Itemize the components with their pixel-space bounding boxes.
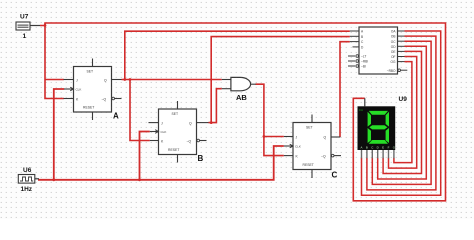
junction on clock bus at A.CLK riser bbox=[52, 178, 55, 181]
junction on clock bus at B.CLK riser bbox=[138, 178, 141, 181]
seven segment display U9 bbox=[358, 96, 408, 158]
svg-text:~RBO: ~RBO bbox=[387, 69, 396, 73]
svg-text:C: C bbox=[332, 171, 338, 180]
svg-text:RESET: RESET bbox=[168, 148, 179, 152]
svg-text:CLK: CLK bbox=[295, 145, 301, 149]
wire C.Q net: to decoder C bbox=[340, 42, 350, 137]
svg-text:1Hz: 1Hz bbox=[21, 186, 33, 193]
svg-text:SET: SET bbox=[87, 70, 94, 74]
svg-text:~RBI: ~RBI bbox=[361, 60, 368, 64]
svg-text:U9: U9 bbox=[399, 96, 408, 103]
svg-text:OE: OE bbox=[391, 50, 396, 54]
JK flip-flop C bbox=[284, 115, 341, 180]
constant source U7 bbox=[16, 14, 40, 40]
svg-text:CLK: CLK bbox=[161, 130, 167, 134]
svg-text:U6: U6 bbox=[23, 167, 32, 174]
wire A.Q net: to decoder A, to B.K, to AND input 1 bbox=[122, 31, 350, 140]
wire decoder output OE to display pin E bbox=[383, 51, 421, 173]
svg-text:CA: CA bbox=[359, 108, 363, 112]
wire decoder output OA to display pin A bbox=[362, 31, 441, 195]
svg-text:~BI: ~BI bbox=[361, 65, 366, 69]
svg-text:OF: OF bbox=[391, 55, 395, 59]
AND gate AB bbox=[222, 77, 256, 101]
svg-text:~LT: ~LT bbox=[361, 55, 366, 59]
svg-text:U7: U7 bbox=[20, 14, 29, 21]
svg-text:Q: Q bbox=[189, 121, 192, 125]
BCD to 7-segment decoder bbox=[348, 27, 407, 74]
svg-text:~Q: ~Q bbox=[187, 139, 192, 143]
svg-text:F: F bbox=[388, 145, 390, 149]
junction on net A.Q at riser to decoder bbox=[123, 78, 126, 81]
svg-text:Q: Q bbox=[104, 78, 107, 82]
svg-text:~Q: ~Q bbox=[321, 154, 326, 158]
wire VCC net: U7 to A.J/A.K and display CA (top line, right loop) bbox=[40, 23, 446, 201]
JK flip-flop B bbox=[149, 101, 209, 163]
svg-text:B: B bbox=[198, 154, 204, 163]
svg-text:B: B bbox=[366, 145, 368, 149]
svg-text:J: J bbox=[76, 78, 78, 82]
junction on net A.Q at riser to B.K bbox=[129, 78, 132, 81]
wire clock net: U6 bus to CLK of A,B,C bbox=[38, 89, 284, 180]
wire decoder output OG to display pin G bbox=[394, 62, 412, 163]
JK flip-flop A bbox=[64, 59, 122, 121]
svg-text:J: J bbox=[296, 135, 298, 139]
wire decoder output OF to display pin F bbox=[389, 57, 417, 169]
clock source U6 1Hz bbox=[18, 167, 39, 193]
svg-text:CLK: CLK bbox=[76, 88, 82, 92]
svg-text:SET: SET bbox=[172, 112, 179, 116]
svg-text:A: A bbox=[361, 145, 363, 149]
svg-text:C: C bbox=[371, 145, 373, 149]
svg-text:J: J bbox=[161, 121, 163, 125]
svg-text:Q: Q bbox=[324, 135, 327, 139]
svg-text:RESET: RESET bbox=[303, 163, 314, 167]
wire B.Q net: to decoder B and AND input 2 bbox=[209, 37, 350, 123]
svg-text:E: E bbox=[382, 145, 384, 149]
svg-text:~Q: ~Q bbox=[102, 97, 107, 101]
svg-text:RESET: RESET bbox=[83, 106, 94, 110]
junction on VCC net at U7 output bbox=[44, 24, 47, 27]
wire decoder output OB to display pin B bbox=[367, 36, 436, 190]
svg-text:SET: SET bbox=[306, 126, 313, 130]
wire decoder output OD to display pin D bbox=[378, 46, 427, 179]
svg-text:OC: OC bbox=[391, 40, 396, 44]
svg-text:1: 1 bbox=[23, 33, 27, 40]
svg-text:OD: OD bbox=[391, 45, 396, 49]
wire AND output net: to C.J and C.K bbox=[256, 84, 284, 155]
svg-text:D: D bbox=[377, 145, 379, 149]
svg-text:A: A bbox=[113, 112, 119, 121]
junction on net AB at C.J branch bbox=[263, 135, 266, 138]
svg-text:B: B bbox=[361, 35, 363, 39]
wire decoder output OC to display pin C bbox=[372, 41, 431, 184]
svg-text:AB: AB bbox=[236, 93, 247, 102]
svg-text:OG: OG bbox=[391, 60, 396, 64]
svg-text:OB: OB bbox=[391, 35, 396, 39]
junction on net B.Q at riser to decoder bbox=[210, 121, 213, 124]
